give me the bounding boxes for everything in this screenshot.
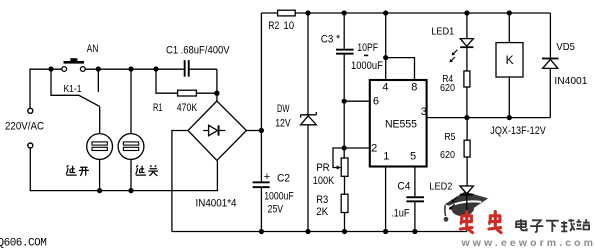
svg-text:6: 6 — [373, 95, 379, 107]
svg-text:620: 620 — [440, 149, 455, 161]
svg-text:5: 5 — [410, 151, 416, 163]
wire lamp1 feed — [99, 107, 101, 160]
label IN4001 — [554, 75, 587, 87]
label R1 — [153, 102, 163, 114]
node R1-tap junction — [153, 66, 158, 71]
LED LED2 — [449, 186, 473, 232]
svg-text:1000uF: 1000uF — [351, 60, 383, 72]
node K-top — [507, 10, 512, 15]
wire top-left horizontal — [30, 69, 217, 108]
label 10PF — [357, 42, 378, 54]
pin 4 — [382, 82, 388, 94]
label C2 plus — [264, 171, 270, 183]
svg-text:K1-1: K1-1 — [64, 83, 82, 95]
svg-text:C3: C3 — [321, 34, 334, 46]
label C3-star — [336, 33, 341, 45]
wire bridge-right to V+ — [246, 130, 261, 132]
pin 1 — [383, 151, 389, 163]
svg-text:R2: R2 — [268, 20, 279, 32]
resistor R5 — [464, 118, 470, 186]
label Q606.COM — [0, 237, 46, 249]
relay contact K1-1 — [51, 69, 100, 107]
label AN — [87, 43, 99, 55]
svg-text:470K: 470K — [177, 102, 198, 114]
svg-text:*: * — [336, 33, 341, 45]
svg-text:+: + — [264, 171, 270, 183]
node C3-top — [342, 10, 347, 15]
label 1000uF — [351, 60, 383, 72]
resistor R4 — [464, 71, 470, 118]
wire top rail — [261, 12, 550, 14]
svg-text:C1 .68uF/400V: C1 .68uF/400V — [166, 45, 230, 57]
capacitor C3 — [336, 13, 354, 158]
switch AN — [62, 58, 85, 71]
label LED1 — [431, 26, 454, 38]
label C3 — [321, 34, 334, 46]
svg-text:10: 10 — [283, 20, 294, 32]
svg-text:1000uF: 1000uF — [264, 191, 294, 203]
wire bridge-left to ground rail — [172, 131, 188, 232]
svg-text:.1uF: .1uF — [391, 207, 410, 219]
label 延开 — [66, 165, 89, 176]
node DW-top — [305, 10, 310, 15]
op-amp timer U1 NE555 box — [370, 80, 427, 167]
label K1-1 — [64, 83, 82, 95]
svg-text:2: 2 — [371, 143, 377, 155]
label VD5 — [556, 41, 575, 53]
label C2 — [277, 172, 290, 184]
wire bottom-left rail — [30, 148, 217, 190]
lamp socket 延开 — [87, 134, 113, 191]
label C1 .68uF/400V — [166, 45, 230, 57]
label R2 10 — [283, 20, 294, 32]
capacitor C4 — [406, 168, 424, 232]
pin 5 — [410, 151, 416, 163]
label DW — [277, 103, 290, 115]
svg-text:620: 620 — [440, 82, 455, 94]
label DW 12V — [275, 118, 291, 130]
label .1uF — [391, 207, 410, 219]
label JQX-13F-12V — [490, 125, 546, 137]
label dash — [364, 55, 368, 57]
node K-bottom — [507, 115, 512, 120]
label C2 1000uF — [264, 191, 294, 203]
relay coil K — [496, 13, 523, 118]
pin 8 — [411, 82, 417, 94]
node AN-right junction — [96, 66, 101, 71]
node AN-left junction — [48, 66, 53, 71]
LED LED1 — [450, 13, 474, 71]
svg-text:VD5: VD5 — [556, 41, 575, 53]
node lamp1-bottom — [97, 188, 102, 193]
wire K1-1 fixed stub — [97, 69, 99, 92]
svg-text:C4: C4 — [397, 180, 410, 192]
node rail pin1 — [383, 229, 388, 234]
label C2 25V — [268, 203, 284, 215]
wire LED2 over watermark — [449, 186, 473, 216]
wire pin3 output — [428, 117, 551, 119]
svg-text:LED2: LED2 — [429, 180, 452, 192]
wire pin4/pin8 supply — [386, 13, 415, 79]
resistor R3 — [341, 176, 348, 231]
svg-text:R1: R1 — [153, 102, 163, 114]
svg-text:1: 1 — [383, 151, 389, 163]
svg-text:DW: DW — [277, 103, 290, 115]
node rail R3 — [342, 229, 347, 234]
resistor R1 — [156, 69, 217, 96]
node rail C4 — [412, 229, 417, 234]
svg-text:12V: 12V — [275, 118, 291, 130]
svg-text:R5: R5 — [444, 131, 455, 143]
label IN4001*4 — [196, 197, 237, 209]
svg-text:NE555: NE555 — [385, 118, 417, 130]
capacitor C1 — [184, 60, 190, 76]
terminal lower 220V — [28, 143, 33, 148]
wire ground rail — [172, 231, 467, 233]
node pin4 supply junction — [383, 10, 388, 15]
node lamp2-top — [128, 66, 133, 71]
node rail C2 — [259, 229, 264, 234]
svg-text:IN4001*4: IN4001*4 — [196, 197, 237, 209]
svg-text:C2: C2 — [277, 172, 290, 184]
svg-text:PR: PR — [316, 162, 330, 174]
lamp socket 延关 — [118, 69, 144, 190]
zener DW — [301, 13, 317, 232]
label 470K — [177, 102, 198, 114]
svg-text:LED1: LED1 — [431, 26, 454, 38]
label 2K — [316, 206, 329, 218]
svg-text:10PF: 10PF — [357, 42, 378, 54]
watermark 虫 char 1 — [460, 212, 472, 233]
svg-text:Q606.COM: Q606.COM — [0, 237, 46, 249]
svg-text:JQX-13F-12V: JQX-13F-12V — [490, 125, 546, 137]
label R4 620 — [440, 82, 455, 94]
wire C1 to bridge top — [216, 69, 218, 101]
svg-text:4: 4 — [382, 82, 388, 94]
bridge rectifier IN4001*4 — [188, 101, 246, 161]
node pin3-R4 — [464, 115, 469, 120]
label 延关 — [136, 165, 159, 176]
node pin4/8 branch — [383, 55, 388, 60]
label C4 — [397, 180, 410, 192]
wire V+ vertical — [260, 13, 262, 232]
pin 3 — [421, 106, 427, 118]
svg-text:2K: 2K — [316, 206, 329, 218]
potentiometer PR — [333, 148, 348, 176]
diode VD5 — [542, 13, 559, 118]
terminal upper 220V — [28, 108, 33, 113]
svg-text:25V: 25V — [268, 203, 284, 215]
label R4 — [442, 73, 453, 85]
pin 2 — [371, 143, 377, 155]
wire pin2 — [344, 147, 369, 149]
node LED1-top — [464, 10, 469, 15]
svg-text:AN: AN — [87, 43, 99, 55]
node pin2 junction — [342, 145, 347, 150]
resistor R2 — [278, 10, 296, 16]
label NE555 — [385, 118, 417, 130]
node bridge-right junction — [259, 128, 264, 133]
label R3 — [316, 194, 328, 206]
svg-text:100K: 100K — [313, 175, 335, 187]
watermark www.eeworm.com — [461, 237, 595, 249]
label R2 — [268, 20, 279, 32]
watermark 虫 char 2 — [489, 212, 501, 233]
svg-text:R3: R3 — [316, 194, 328, 206]
label LED2 — [429, 180, 452, 192]
svg-text:IN4001: IN4001 — [554, 75, 587, 87]
wire pin6 — [344, 100, 369, 102]
svg-text:220V/AC: 220V/AC — [5, 121, 44, 133]
watermark 电子下载站 — [516, 219, 590, 232]
svg-text:3: 3 — [421, 106, 427, 118]
svg-text:www.eeworm.com: www.eeworm.com — [461, 237, 595, 249]
wire pin1 ground — [385, 168, 387, 232]
watermark graduation cap — [444, 192, 489, 222]
node rail DW — [305, 229, 310, 234]
label K — [506, 53, 514, 67]
svg-text:8: 8 — [411, 82, 417, 94]
svg-text:K: K — [506, 53, 514, 67]
node lamp2-bottom — [128, 188, 133, 193]
label PR — [316, 162, 330, 174]
label R5 620 — [440, 149, 455, 161]
node bridge-top junction — [214, 91, 219, 96]
pin 6 — [373, 95, 379, 107]
capacitor C2 — [253, 181, 270, 188]
label R5 — [444, 131, 455, 143]
label 220V/AC — [5, 121, 44, 133]
label 100K — [313, 175, 335, 187]
node pin6 junction — [342, 99, 347, 104]
